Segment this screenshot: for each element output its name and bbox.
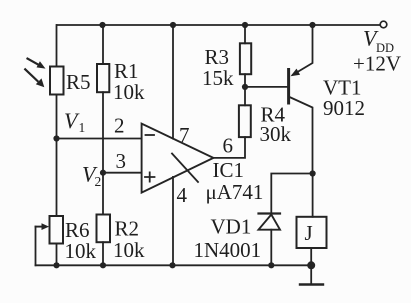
junction dot base node: [242, 84, 248, 90]
ground symbol: [300, 265, 323, 284]
op-amp inverting input minus sign: [146, 134, 155, 136]
label VDD: [363, 26, 394, 56]
wire collector node to diode VD1: [271, 174, 312, 214]
junction dot rail-R6 bottom: [53, 262, 59, 268]
svg-text:3: 3: [116, 149, 127, 173]
light arrow 1 into R5: [28, 59, 46, 69]
wire pin 7 from rail to op-amp top edge: [172, 25, 174, 139]
wire R2 bottom to bottom rail: [102, 242, 104, 265]
svg-text:10k: 10k: [113, 80, 145, 104]
svg-text:2: 2: [114, 114, 125, 138]
node V2 junction dot: [100, 170, 106, 176]
svg-text:μA741: μA741: [206, 180, 264, 204]
wire rail to R1: [102, 25, 104, 64]
wire R3 bottom to base node and R4 top: [244, 74, 246, 105]
svg-text:30k: 30k: [260, 122, 292, 146]
diode VD1 triangle: [259, 215, 281, 230]
svg-text:4: 4: [177, 183, 188, 207]
light arrow 2 into R5: [25, 69, 44, 87]
wire VD1 anode to bottom rail: [270, 230, 272, 266]
R6 wiper arrow: [36, 223, 50, 230]
junction dot rail-R2 bottom: [100, 262, 106, 268]
svg-text:R5: R5: [66, 70, 91, 94]
resistor R2 body: [97, 215, 111, 243]
diode VD1 cathode bar: [259, 212, 281, 214]
svg-text:10k: 10k: [65, 239, 97, 263]
wire op-amp output pin 6 to R4 bottom: [213, 137, 245, 158]
transistor Q1 VT1 base bar: [287, 70, 290, 104]
resistor R5 (photoresistor body): [50, 67, 64, 95]
wire rail to R3: [244, 25, 246, 43]
svg-text:+12V: +12V: [353, 52, 401, 76]
label V2: [82, 162, 101, 190]
svg-text:10k: 10k: [113, 238, 145, 262]
wire node V2 to op-amp pin 3: [103, 172, 142, 174]
svg-text:R2: R2: [115, 217, 140, 241]
relay J body: [297, 217, 327, 248]
op-amp slash mark: [172, 154, 198, 183]
terminal VDD open circle: [380, 21, 387, 28]
junction dot rail-pin4 bottom: [169, 262, 175, 268]
svg-text:1N4001: 1N4001: [194, 238, 262, 262]
transistor VT1 collector wire: [290, 97, 313, 174]
svg-text:IC1: IC1: [213, 158, 245, 182]
transistor VT1 emitter wire with arrow: [291, 25, 313, 76]
wire R6 wiper to bottom rail: [35, 227, 37, 266]
wire collector node to relay J: [312, 174, 314, 217]
junction dot VD1-bottom rail: [268, 262, 274, 268]
wire R6 bottom to bottom rail: [56, 244, 58, 266]
potentiometer R6 body: [50, 216, 64, 244]
junction dot ground node: [307, 261, 315, 269]
wire base node to VT1 base: [245, 86, 288, 88]
svg-text:6: 6: [223, 134, 234, 158]
resistor R4 body: [239, 105, 251, 137]
svg-text:J: J: [305, 221, 313, 245]
wire relay J to bottom rail: [310, 248, 312, 265]
svg-text:2: 2: [95, 174, 102, 189]
wire R5 bottom to node V1 and down to R6: [56, 95, 58, 217]
wire bottom rail: [36, 264, 312, 266]
node V1 junction dot: [53, 135, 59, 141]
label V1: [64, 108, 85, 135]
junction dot rail-pin7: [170, 22, 176, 28]
wire left column top (rail down to R5): [56, 25, 58, 67]
resistor R1 body: [97, 64, 109, 92]
junction dot rail-R1: [99, 22, 105, 28]
junction dot collector node: [310, 170, 316, 176]
op-amp noninverting input plus sign: [145, 172, 155, 181]
junction dot rail-R3: [242, 22, 248, 28]
svg-text:1: 1: [79, 120, 86, 135]
wire top supply rail: [57, 24, 380, 26]
resistor R3 body: [240, 43, 251, 74]
svg-text:15k: 15k: [202, 66, 234, 90]
op-amp U1 triangle: [142, 124, 214, 193]
wire R1 bottom to node V2 and down to R2: [102, 92, 104, 214]
wire pin 4 from op-amp bottom edge to bottom rail: [172, 177, 174, 265]
wire node V1 to op-amp pin 2: [57, 138, 142, 140]
svg-text:9012: 9012: [323, 96, 365, 120]
svg-text:VD1: VD1: [211, 215, 252, 239]
junction dot rail-VT1 emitter: [309, 22, 315, 28]
svg-text:7: 7: [179, 123, 190, 147]
